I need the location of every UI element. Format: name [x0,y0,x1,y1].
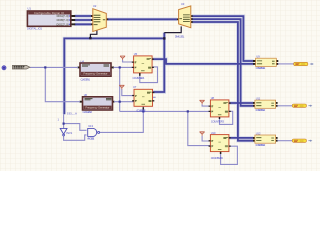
svg-text:DIGITAL_IO1: DIGITAL_IO1 [27,27,43,31]
svg-text:COUNTER4: COUNTER4 [211,156,224,160]
svg-text:U2: U2 [93,4,97,8]
svg-text:U5: U5 [134,52,138,56]
svg-text:COUNTER1: COUNTER1 [133,76,146,80]
svg-text:Frequency Generator: Frequency Generator [86,106,110,109]
svg-text:COUNTER2: COUNTER2 [136,109,146,113]
svg-text:INV1: INV1 [66,131,72,135]
svg-text:U11: U11 [256,97,261,101]
svg-text:Frequency Generator: Frequency Generator [84,73,108,76]
svg-text:COMPARE1: COMPARE1 [256,66,266,70]
svg-text:CLKGEN1: CLKGEN1 [81,77,91,81]
svg-text:U9: U9 [256,55,260,59]
svg-text:U10: U10 [211,131,216,135]
svg-text:DMX_SEL: DMX_SEL [175,35,185,39]
svg-text:AND2B1: AND2B1 [87,137,95,141]
svg-text:U7: U7 [133,85,137,89]
svg-text:U3: U3 [181,2,185,6]
svg-text:COMPARE2: COMPARE2 [256,108,266,112]
svg-text:U1: U1 [28,6,32,10]
svg-text:COUNTER3: COUNTER3 [211,119,225,123]
svg-text:U12: U12 [256,131,261,135]
svg-text:U13: U13 [88,124,93,128]
svg-text:CLKGEN2: CLKGEN2 [83,110,93,114]
svg-text:DIOB[7..0]: DIOB[7..0] [57,19,69,22]
svg-text:DIOA[7..0]: DIOA[7..0] [57,15,69,18]
svg-text:U6: U6 [84,93,88,97]
svg-text:U4: U4 [81,59,85,63]
svg-text:DIOC[7..0]: DIOC[7..0] [56,23,68,26]
svg-text:SEL_A: SEL_A [67,112,77,116]
svg-text:COMPARE3: COMPARE3 [256,143,266,147]
svg-text:U8: U8 [211,96,215,100]
